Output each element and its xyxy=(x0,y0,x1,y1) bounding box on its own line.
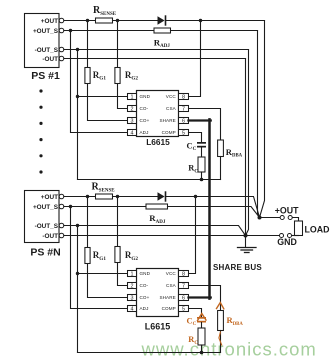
wire +OUT node to terminal xyxy=(260,217,280,219)
svg-text:CO+: CO+ xyxy=(140,295,150,300)
wire local ground rail U2 xyxy=(78,352,221,354)
svg-text:PS #N: PS #N xyxy=(30,247,60,259)
terminal +OUT left xyxy=(280,215,284,219)
wire GND terminal to LOAD xyxy=(292,235,299,237)
svg-text:+OUT: +OUT xyxy=(275,206,299,216)
wire -OUT PS#1 xyxy=(64,58,246,60)
svg-text:8: 8 xyxy=(182,94,185,100)
svg-text:+OUT_S: +OUT_S xyxy=(33,204,59,211)
wire +OUT terminal to LOAD xyxy=(293,218,299,222)
lead R_G2#N top xyxy=(117,197,119,247)
svg-text:-OUT_S: -OUT_S xyxy=(35,47,59,54)
svg-text:6: 6 xyxy=(182,118,185,124)
terminal +OUT_S PS#N xyxy=(59,204,64,209)
svg-text:6: 6 xyxy=(182,295,185,301)
terminal +OUT PS#N xyxy=(59,194,64,199)
svg-text:ADJ: ADJ xyxy=(140,130,149,135)
ellipsis dots between sections xyxy=(39,89,42,92)
terminal -OUT PS#1 xyxy=(59,56,64,61)
terminal -OUT PS#N xyxy=(59,233,64,238)
pin 5 box U2 xyxy=(179,306,189,312)
terminal GND left xyxy=(279,233,283,237)
resistor Rc U2 xyxy=(198,328,205,345)
wire -OUT_S PS#1 xyxy=(64,49,249,51)
pin 6 box U1 xyxy=(179,118,189,124)
lead R_G1#N bottom to pin3 xyxy=(88,264,128,298)
wire share bus vertical (thick) xyxy=(208,119,211,298)
wire pin1 stub U2 xyxy=(78,273,128,275)
wire Rc bottom U1 xyxy=(201,172,203,180)
orange mark over Cc#2 xyxy=(198,314,207,321)
svg-text:+OUT: +OUT xyxy=(41,18,58,25)
svg-text:CO-: CO- xyxy=(140,106,149,111)
svg-text:5: 5 xyxy=(182,306,185,312)
svg-text:COMP: COMP xyxy=(162,306,176,311)
wire R_SENSE#N to diode D2 xyxy=(113,196,158,198)
terminal GND right xyxy=(287,233,291,237)
node dot ground junction xyxy=(244,234,248,238)
wire ADJ pin4 net U2 xyxy=(71,207,128,309)
node dot R_G1N top xyxy=(86,195,89,198)
power supply PS #1 box xyxy=(25,14,60,68)
wire VCC pin8 U2 to +OUT#N xyxy=(189,197,196,274)
svg-text:-OUT_S: -OUT_S xyxy=(35,223,59,230)
wire diode D2 to +OUT node xyxy=(166,197,259,218)
node dot ADJ#2 tap xyxy=(69,205,72,208)
wire -OUT#1 vertical to ground xyxy=(245,59,247,248)
svg-text:5: 5 xyxy=(182,130,185,136)
svg-text:2: 2 xyxy=(131,283,134,289)
pin 7 box U1 xyxy=(179,106,189,112)
wire R_SENSE to diode D1 xyxy=(113,20,158,22)
wire R_ADJ to corner xyxy=(171,30,258,32)
svg-text:1: 1 xyxy=(131,94,134,100)
node dot pin1 junction U2 xyxy=(76,272,79,275)
wire Rc#2 bottom xyxy=(201,345,203,353)
node dot R_G1 top on +OUT xyxy=(86,19,89,22)
svg-text:SHARE BUS: SHARE BUS xyxy=(213,263,262,272)
svg-text:2: 2 xyxy=(131,106,134,112)
wire COMP pin5 U1 to Cc xyxy=(189,133,202,143)
svg-text:VCC: VCC xyxy=(166,94,177,99)
resistor R_ADJ PS#N xyxy=(146,204,168,209)
svg-text:SHARE: SHARE xyxy=(159,118,175,123)
capacitor Cc U1 xyxy=(197,142,206,144)
wire Cc to Rc U1 xyxy=(201,148,203,158)
lead R_G1#N top xyxy=(87,197,89,248)
svg-text:www.cntronics.com: www.cntronics.com xyxy=(141,339,317,360)
wire GND pin1 net vertical U2 xyxy=(77,226,79,353)
svg-text:COMP: COMP xyxy=(162,130,176,135)
pin 2 box U1 xyxy=(128,106,137,112)
diode D1 xyxy=(158,16,165,25)
svg-text:VCC: VCC xyxy=(166,271,177,276)
svg-text:1: 1 xyxy=(131,271,134,277)
node dot pin1 junction U1 xyxy=(76,95,79,98)
node dot +OUT junction xyxy=(258,216,262,220)
svg-text:GND: GND xyxy=(277,237,297,247)
pin 3 box U2 xyxy=(128,295,137,301)
svg-text:CO-: CO- xyxy=(140,283,149,288)
svg-text:SHARE: SHARE xyxy=(159,295,175,300)
wire +OUT_S#1 right vertical xyxy=(258,31,260,218)
resistor R_ADJ PS#1 xyxy=(154,28,171,33)
svg-text:PS #1: PS #1 xyxy=(31,70,60,82)
lead R_G2#N bottom to pin2 xyxy=(118,263,128,286)
lead R_G2 top xyxy=(117,21,119,68)
wire +OUT_S PS#N to R_ADJ#N xyxy=(64,206,146,208)
pin 8 box U2 xyxy=(179,271,189,277)
resistor R_DBA U1 xyxy=(218,140,224,157)
svg-text:4: 4 xyxy=(131,306,134,312)
resistor R_G2 xyxy=(115,68,120,84)
terminal -OUT_S PS#1 xyxy=(59,47,64,52)
ground symbol xyxy=(238,247,257,249)
power supply PS #N box xyxy=(25,191,60,243)
resistor R_SENSE PS#1 xyxy=(96,18,113,23)
svg-text:CSA: CSA xyxy=(166,283,177,288)
terminal -OUT_S PS#N xyxy=(59,223,64,228)
op-amp U1 L6615 body xyxy=(137,91,179,137)
node dot VCC#1 tap xyxy=(199,19,202,22)
lead R_G1 top xyxy=(87,21,89,68)
resistor LOAD xyxy=(295,221,303,236)
svg-text:CO+: CO+ xyxy=(140,118,150,123)
wire R_DBA#2 bottom to ground rail xyxy=(220,331,222,353)
wire GND pin1 net vertical U1 xyxy=(77,50,79,180)
wire +OUT_S PS#1 to R_ADJ xyxy=(64,30,154,32)
svg-text:GND: GND xyxy=(140,271,151,276)
wire local ground rail U1 xyxy=(78,179,221,181)
terminal +OUT right xyxy=(288,215,292,219)
wire -OUT_S#1 right vertical xyxy=(246,50,249,236)
node dot ADJ#1 tap xyxy=(69,29,72,32)
wire +OUT PS#1 to R_SENSE xyxy=(64,20,96,22)
wire R_DBA bottom to ground rail xyxy=(220,157,222,180)
node dot GND#2 tap xyxy=(76,224,79,227)
wire pin1 stub U1 xyxy=(78,96,128,98)
op-amp U2 L6615 body xyxy=(137,269,179,317)
wire -OUT_S PS#N to GND node xyxy=(64,226,246,236)
svg-text:7: 7 xyxy=(182,283,185,289)
svg-text:8: 8 xyxy=(182,271,185,277)
pin 1 box U2 xyxy=(128,271,137,277)
terminal +OUT_S PS#1 xyxy=(59,28,64,33)
diode D2 xyxy=(158,192,165,201)
lead R_G2 bottom to pin2 xyxy=(118,84,128,109)
pin 6 box U2 xyxy=(179,295,189,301)
node dot VCC#2 tap xyxy=(194,195,197,198)
svg-text:L6615: L6615 xyxy=(146,137,170,147)
svg-text:+OUT_S: +OUT_S xyxy=(33,28,59,35)
wire +OUT PS#N to R_SENSE#N xyxy=(64,196,96,198)
resistor R_G2#N xyxy=(115,247,120,263)
svg-text:ADJ: ADJ xyxy=(140,306,149,311)
pin 1 box U1 xyxy=(128,94,137,100)
wire ADJ pin4 net U1 xyxy=(71,31,128,133)
node dot R_G2N top xyxy=(116,195,119,198)
capacitor Cc U2 (orange) xyxy=(197,317,206,319)
terminal +OUT PS#1 xyxy=(59,18,64,23)
lead R_G1 bottom to pin3 xyxy=(88,84,128,121)
svg-text:L6615: L6615 xyxy=(145,321,171,331)
node dot Rc bottom junction U2 xyxy=(200,351,204,355)
pin 4 box U1 xyxy=(128,130,137,136)
svg-text:+OUT: +OUT xyxy=(41,194,58,201)
svg-text:CSA: CSA xyxy=(166,106,177,111)
svg-text:3: 3 xyxy=(131,118,134,124)
wire SHARE pin6 stub U1 (thick) xyxy=(189,119,211,121)
wire COMP pin5 U2 to Cc#2 xyxy=(189,309,202,318)
resistor Rc U1 xyxy=(198,157,205,172)
pin 5 box U1 xyxy=(179,130,189,136)
node dot Rc bottom junction U1 xyxy=(200,178,204,182)
svg-text:3: 3 xyxy=(131,295,134,301)
pin 8 box U1 xyxy=(179,94,189,100)
pin 3 box U1 xyxy=(128,118,137,124)
wire Cc#2 to Rc#2 xyxy=(201,323,203,329)
pin 7 box U2 xyxy=(179,283,189,289)
svg-text:4: 4 xyxy=(131,130,134,136)
resistor R_SENSE PS#N xyxy=(96,194,113,199)
node dot GND#1 tap xyxy=(76,48,79,51)
svg-text:-OUT: -OUT xyxy=(42,233,58,240)
wire CSA pin7 U2 to R_DBA#2 xyxy=(189,286,221,311)
resistor R_G1#N xyxy=(85,248,90,264)
wire SHARE pin6 stub U2 (thick) xyxy=(189,296,211,298)
orange mark over R_DBA#2 wire xyxy=(217,303,224,309)
wire +OUT#1 right vertical xyxy=(260,21,265,218)
wire -OUT PS#N ground bus xyxy=(64,235,279,237)
resistor R_G1 xyxy=(85,68,90,84)
svg-text:-OUT: -OUT xyxy=(42,56,58,63)
wire R_ADJ#N to +OUT node xyxy=(168,207,260,218)
orange tail below R_DBA#2 xyxy=(219,332,222,345)
wire VCC pin8 U1 to +OUT xyxy=(189,21,201,97)
pin 4 box U2 xyxy=(128,306,137,312)
node dot R_G2 top after R_SENSE xyxy=(116,19,119,22)
svg-text:GND: GND xyxy=(140,94,151,99)
svg-text:LOAD: LOAD xyxy=(305,225,330,235)
wire diode D1 to corner xyxy=(166,20,264,22)
wire CSA pin7 U1 to R_DBA xyxy=(189,109,221,141)
pin 2 box U2 xyxy=(128,283,137,289)
svg-text:7: 7 xyxy=(182,106,185,112)
resistor R_DBA U2 xyxy=(218,311,224,331)
